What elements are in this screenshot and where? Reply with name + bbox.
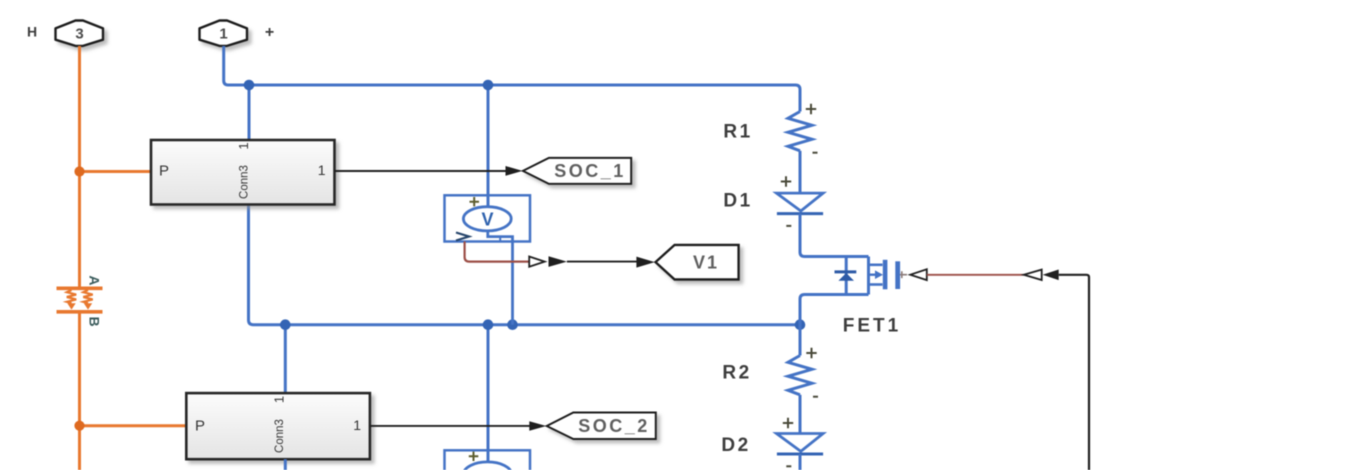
orange branch wire to Conn3 upper P port bbox=[80, 170, 152, 173]
signal line Conn3 lower to SOC_2 bbox=[370, 425, 530, 427]
goto tag SOC_1 bbox=[523, 158, 631, 184]
wire D1 to FET drain bbox=[800, 214, 869, 257]
signal line Conn3 upper to SOC_1 bbox=[335, 170, 508, 172]
junction dot bbox=[483, 80, 494, 91]
voltage sensor 2 box bbox=[445, 450, 531, 470]
blue drop wire to Conn3 upper top port bbox=[248, 85, 251, 140]
FET1 bottom stub bbox=[869, 283, 883, 286]
svg-text:1: 1 bbox=[236, 142, 251, 149]
svg-text:FET1: FET1 bbox=[843, 315, 901, 336]
svg-text:1: 1 bbox=[318, 162, 326, 178]
blue wire Conn3 upper bottom port to lower bus bbox=[249, 205, 801, 325]
arrowhead into SOC_1 bbox=[506, 166, 523, 176]
FET1 channel bar bbox=[883, 260, 888, 290]
connection port 3 bbox=[56, 21, 104, 46]
heat transfer spring 1 bbox=[67, 290, 76, 303]
filled arrowhead pointing left bbox=[1043, 270, 1059, 281]
red wire to gate bbox=[927, 274, 1024, 276]
blue wire from port 1 to main top bus and corner down to R1 bbox=[224, 46, 800, 112]
svg-text:SOC_1: SOC_1 bbox=[554, 161, 626, 181]
svg-text:V: V bbox=[481, 210, 493, 230]
svg-text:P: P bbox=[195, 417, 205, 434]
svg-text:+: + bbox=[265, 24, 274, 41]
svg-text:R1: R1 bbox=[723, 121, 752, 142]
sensor 2 ellipse bbox=[464, 462, 512, 470]
junction dot sensor1 return bbox=[507, 319, 518, 330]
arrowhead into V1 bbox=[636, 257, 654, 268]
blue wire Conn3 lower bottom port down bbox=[284, 459, 287, 470]
sensor 2 wire inside bbox=[487, 450, 490, 462]
black signal wire from bottom right bbox=[1059, 275, 1089, 470]
sensor 1 wire inside to ellipse bbox=[487, 195, 490, 207]
FET1 source wire from bus bbox=[800, 295, 869, 325]
orange wire below heat transfer to bottom bbox=[78, 312, 81, 470]
svg-text:P: P bbox=[159, 163, 169, 180]
FET1 gate stub bbox=[900, 271, 907, 278]
D2 minus mark bbox=[786, 465, 791, 467]
svg-text:Conn3: Conn3 bbox=[239, 165, 251, 199]
orange junction lower bbox=[74, 421, 84, 431]
svg-text:1: 1 bbox=[219, 26, 227, 43]
blue drop wire to voltage sensor 2 bbox=[487, 325, 490, 462]
hollow PS triangle at gate bbox=[910, 269, 927, 280]
resistor R1 bbox=[788, 112, 812, 151]
D1 plus mark bbox=[781, 176, 791, 186]
FET1 top stub bbox=[869, 263, 883, 266]
orange branch wire to Conn3 lower P port bbox=[80, 424, 187, 427]
conductive heat transfer bottom plate bbox=[57, 310, 103, 314]
junction dot bbox=[280, 319, 291, 330]
D1 minus mark bbox=[786, 225, 791, 227]
subsystem block Conn3 upper bbox=[151, 140, 335, 205]
svg-text:1: 1 bbox=[272, 396, 287, 403]
FET1 body vertical bbox=[867, 257, 870, 295]
sensor 1 ellipse bbox=[463, 207, 511, 231]
sensor 1 minus port tick bbox=[499, 237, 501, 242]
svg-text:3: 3 bbox=[75, 26, 83, 43]
connection port 1 bbox=[200, 21, 248, 46]
svg-text:H: H bbox=[27, 24, 37, 40]
blue drop wire to Conn3 lower top port bbox=[284, 325, 287, 393]
svg-text:R2: R2 bbox=[722, 362, 751, 383]
orange junction upper bbox=[74, 166, 84, 176]
svg-text:D2: D2 bbox=[721, 435, 750, 456]
subsystem block Conn3 lower bbox=[186, 393, 370, 459]
goto tag SOC_2 bbox=[547, 413, 656, 440]
sensor 1 output chevron bbox=[456, 233, 469, 241]
wire R2 to D2 bbox=[799, 395, 802, 434]
D1 cathode bar bbox=[777, 212, 823, 215]
junction dot FET source bbox=[795, 319, 806, 330]
resistor R2 bbox=[788, 356, 812, 395]
svg-text:D1: D1 bbox=[723, 191, 752, 212]
svg-text:Conn3: Conn3 bbox=[274, 419, 286, 453]
sensor 2 plus mark bbox=[469, 452, 479, 461]
svg-text:V1: V1 bbox=[693, 253, 719, 273]
svg-text:B: B bbox=[87, 317, 103, 327]
FET1 substrate arrow bbox=[869, 274, 877, 276]
diode D2 bbox=[777, 434, 824, 452]
svg-text:1: 1 bbox=[353, 417, 361, 433]
D2 cathode bar bbox=[777, 453, 823, 456]
FET1 body diode triangle bbox=[838, 273, 854, 281]
R1 plus mark bbox=[806, 104, 816, 114]
diode D1 bbox=[777, 193, 824, 211]
sensor 1 minus return path bbox=[488, 231, 513, 325]
R2 plus mark bbox=[806, 348, 816, 358]
svg-text:A: A bbox=[87, 275, 103, 285]
arrowhead into SOC_2 bbox=[529, 421, 546, 431]
blue drop wire to voltage sensor 1 bbox=[487, 85, 490, 207]
signal line to V1 bbox=[567, 261, 637, 263]
wire D2 down bbox=[799, 454, 802, 470]
R2 top wire from bus bbox=[799, 325, 802, 356]
wire R1 to D1 bbox=[799, 151, 802, 193]
goto tag V1 bbox=[656, 245, 739, 280]
conductive heat transfer top plate bbox=[57, 286, 103, 290]
orange wire from port 3 down bbox=[78, 46, 81, 288]
FET1 body diode bar bbox=[835, 270, 857, 273]
hollow PS port triangle at sensor output bbox=[529, 257, 545, 267]
R1 minus mark bbox=[813, 152, 818, 154]
sensor 1 plus mark bbox=[470, 197, 480, 206]
D2 plus mark bbox=[783, 418, 793, 428]
sensor 1 red output wire bbox=[465, 241, 529, 261]
FET1 gate bar bbox=[895, 261, 900, 289]
filled arrow after sensor output bbox=[549, 256, 567, 267]
junction dot bbox=[483, 319, 494, 330]
R2 minus mark bbox=[813, 396, 818, 398]
voltage sensor 1 box bbox=[445, 195, 531, 241]
hollow PS triangle right bbox=[1024, 270, 1042, 280]
svg-text:SOC_2: SOC_2 bbox=[578, 416, 650, 436]
FET1 body diode branch bbox=[845, 257, 848, 295]
heat transfer spring 2 bbox=[83, 290, 92, 303]
junction dot bbox=[244, 80, 255, 91]
